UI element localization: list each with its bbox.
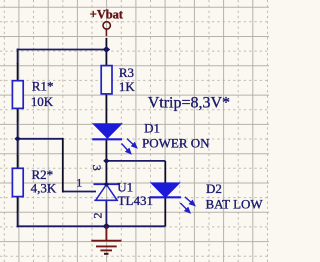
svg-text:D2: D2 xyxy=(206,181,222,196)
svg-text:Vtrip=8,3V*: Vtrip=8,3V* xyxy=(148,94,230,111)
svg-text:2: 2 xyxy=(91,213,105,219)
svg-text:BAT LOW: BAT LOW xyxy=(206,197,264,212)
svg-text:1K: 1K xyxy=(119,79,135,94)
svg-text:R3: R3 xyxy=(119,65,134,80)
svg-text:POWER ON: POWER ON xyxy=(142,136,210,151)
svg-text:4,3K: 4,3K xyxy=(31,180,57,195)
svg-text:10K: 10K xyxy=(31,94,54,109)
svg-text:1: 1 xyxy=(76,175,82,189)
svg-text:TL431: TL431 xyxy=(118,193,153,208)
svg-text:3: 3 xyxy=(90,165,104,171)
svg-text:+Vbat: +Vbat xyxy=(90,8,124,22)
svg-text:R1*: R1* xyxy=(32,78,54,93)
svg-text:D1: D1 xyxy=(144,120,160,135)
